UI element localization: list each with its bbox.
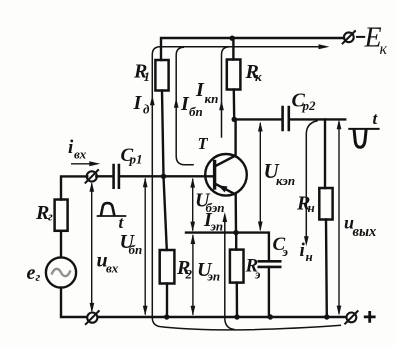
node R2-rail junction <box>164 314 169 319</box>
wire Re to rail <box>236 283 239 317</box>
wire Re branch <box>235 233 237 250</box>
wire current-loop top horizontal <box>160 46 324 48</box>
svg-text:г: г <box>36 269 41 284</box>
arrowhead Id up <box>150 95 155 105</box>
label Iep <box>203 209 223 234</box>
node Rn-rail junction <box>324 314 329 319</box>
svg-text:д: д <box>143 102 150 117</box>
arrowheads Ubp <box>143 177 148 187</box>
arrow Ubp double <box>144 179 146 315</box>
label Ubep <box>195 189 224 215</box>
wire Rg to source <box>60 231 62 257</box>
label Re <box>245 256 262 282</box>
arrowheads Ubep <box>190 178 195 188</box>
wire top supply rail <box>161 38 344 60</box>
arrow Ukep double <box>259 123 261 230</box>
wire R2 to rail <box>166 284 168 318</box>
arrow uvx double <box>91 184 93 311</box>
arrowheads Uep <box>191 234 196 244</box>
capacitor Ce <box>259 261 280 267</box>
wire generator top <box>61 176 87 199</box>
label Ikp <box>195 79 218 106</box>
terminal input bottom <box>87 313 97 323</box>
resistor R1 <box>155 60 168 91</box>
waveform output pulse <box>348 129 379 147</box>
label Ubp <box>120 231 143 257</box>
svg-text:вых: вых <box>353 224 377 240</box>
wire Rn branch <box>324 119 326 188</box>
source eg circle <box>46 257 76 287</box>
svg-text:p1: p1 <box>129 152 143 167</box>
capacitor Cp2 <box>283 107 289 130</box>
svg-text:г: г <box>48 209 53 224</box>
wire emitter reference line <box>186 233 269 262</box>
label Ibp <box>180 93 203 119</box>
transistor T circle <box>205 154 247 196</box>
source eg sine <box>52 269 70 276</box>
resistor Re <box>230 250 244 283</box>
minus of -Ek <box>356 36 365 38</box>
svg-text:T: T <box>198 134 209 153</box>
resistor R2 <box>160 250 175 284</box>
svg-text:н: н <box>308 200 315 215</box>
svg-text:t: t <box>373 109 379 128</box>
label Ek <box>364 23 388 59</box>
svg-text:к: к <box>255 69 262 84</box>
label Rn <box>296 193 315 215</box>
arrowhead Ibp up <box>174 98 179 108</box>
wire collector column top (Rk to rail) <box>232 38 234 60</box>
svg-text:вх: вх <box>74 147 87 162</box>
label R2 <box>176 257 193 282</box>
terminal output plus <box>347 313 357 323</box>
svg-text:эп: эп <box>210 219 224 234</box>
resistor Rn <box>319 188 332 220</box>
svg-text:1: 1 <box>144 69 151 84</box>
wire Rk to collector node <box>233 90 236 120</box>
wire R1 bottom to base node <box>162 91 164 177</box>
svg-text:кп: кп <box>205 91 219 106</box>
wire collector node to Cp2 <box>234 118 281 120</box>
arrow ivx <box>71 163 96 165</box>
label Rk <box>245 61 263 84</box>
arrowhead in down <box>304 236 309 246</box>
wire R2 branch <box>164 176 167 250</box>
wire bottom return loop <box>163 325 341 330</box>
plus sign <box>364 311 376 323</box>
label uvx <box>97 250 119 276</box>
capacitor Cp1 <box>114 165 119 188</box>
node base junction <box>161 174 166 179</box>
arrowhead Ikp to supply <box>319 44 330 49</box>
svg-text:вх: вх <box>106 261 119 276</box>
wire base (input to transistor) <box>96 175 213 177</box>
transistor T base bar <box>213 162 216 189</box>
terminal -Ek <box>344 32 354 42</box>
label ivx <box>68 137 87 162</box>
svg-text:кэп: кэп <box>276 173 295 188</box>
arrowhead ivx right <box>89 161 100 166</box>
label Id <box>133 92 151 117</box>
arrow Uep double <box>192 235 194 315</box>
node Ce-rail junction <box>268 314 273 319</box>
node Re-rail junction <box>234 314 239 319</box>
wire Id loop <box>152 47 163 327</box>
transistor T collector lead <box>215 120 236 167</box>
label Uep <box>197 259 220 284</box>
label Ukep <box>264 159 296 188</box>
label Cp1 <box>121 145 143 167</box>
node collector junction <box>232 117 237 122</box>
svg-text:эп: эп <box>207 269 221 284</box>
wire in loop <box>306 121 318 243</box>
svg-text:I: I <box>133 92 143 114</box>
label eg <box>27 262 41 284</box>
wire Ikp loop <box>222 47 230 138</box>
svg-text:p2: p2 <box>302 98 317 113</box>
label in <box>300 240 313 264</box>
svg-text:2: 2 <box>185 267 193 282</box>
label Cp2 <box>292 90 317 114</box>
svg-text:к: к <box>380 41 388 58</box>
resistor Rg <box>55 200 68 231</box>
arrowhead Ikp up <box>219 100 224 110</box>
arrow uvyh double <box>338 122 340 314</box>
svg-text:э: э <box>282 244 289 259</box>
node rail-Rk junction <box>230 36 235 41</box>
svg-text:бп: бп <box>189 104 203 119</box>
label R1 <box>133 61 150 85</box>
node emitter junction <box>233 230 238 235</box>
svg-text:e: e <box>27 262 36 284</box>
wire generator bottom <box>61 288 346 317</box>
label Rg <box>35 202 53 224</box>
wire Cp2 to output <box>290 118 345 120</box>
wire Iep loop <box>225 215 235 329</box>
arrowhead Iep up <box>222 212 227 222</box>
transistor T emitter lead <box>215 184 236 233</box>
waveform input pulse <box>97 203 127 216</box>
svg-text:э: э <box>254 267 261 282</box>
svg-text:н: н <box>306 249 313 264</box>
arrow Ubep double <box>192 179 194 231</box>
label Ce <box>273 234 289 259</box>
resistor Rk <box>227 60 241 90</box>
arrowheads uvyh <box>337 119 342 129</box>
wire Ce to rail <box>268 267 270 317</box>
svg-text:бп: бп <box>129 242 143 257</box>
wire Rn to rail <box>325 220 328 318</box>
transistor T emitter arrow (PNP) <box>218 185 228 192</box>
arrowheads Ukep <box>258 122 263 132</box>
svg-text:I: I <box>195 79 205 101</box>
arrowheads uvx <box>89 182 94 192</box>
wire Ibp loop <box>176 47 194 165</box>
terminal input top <box>87 171 97 181</box>
label uvyh <box>344 213 376 241</box>
